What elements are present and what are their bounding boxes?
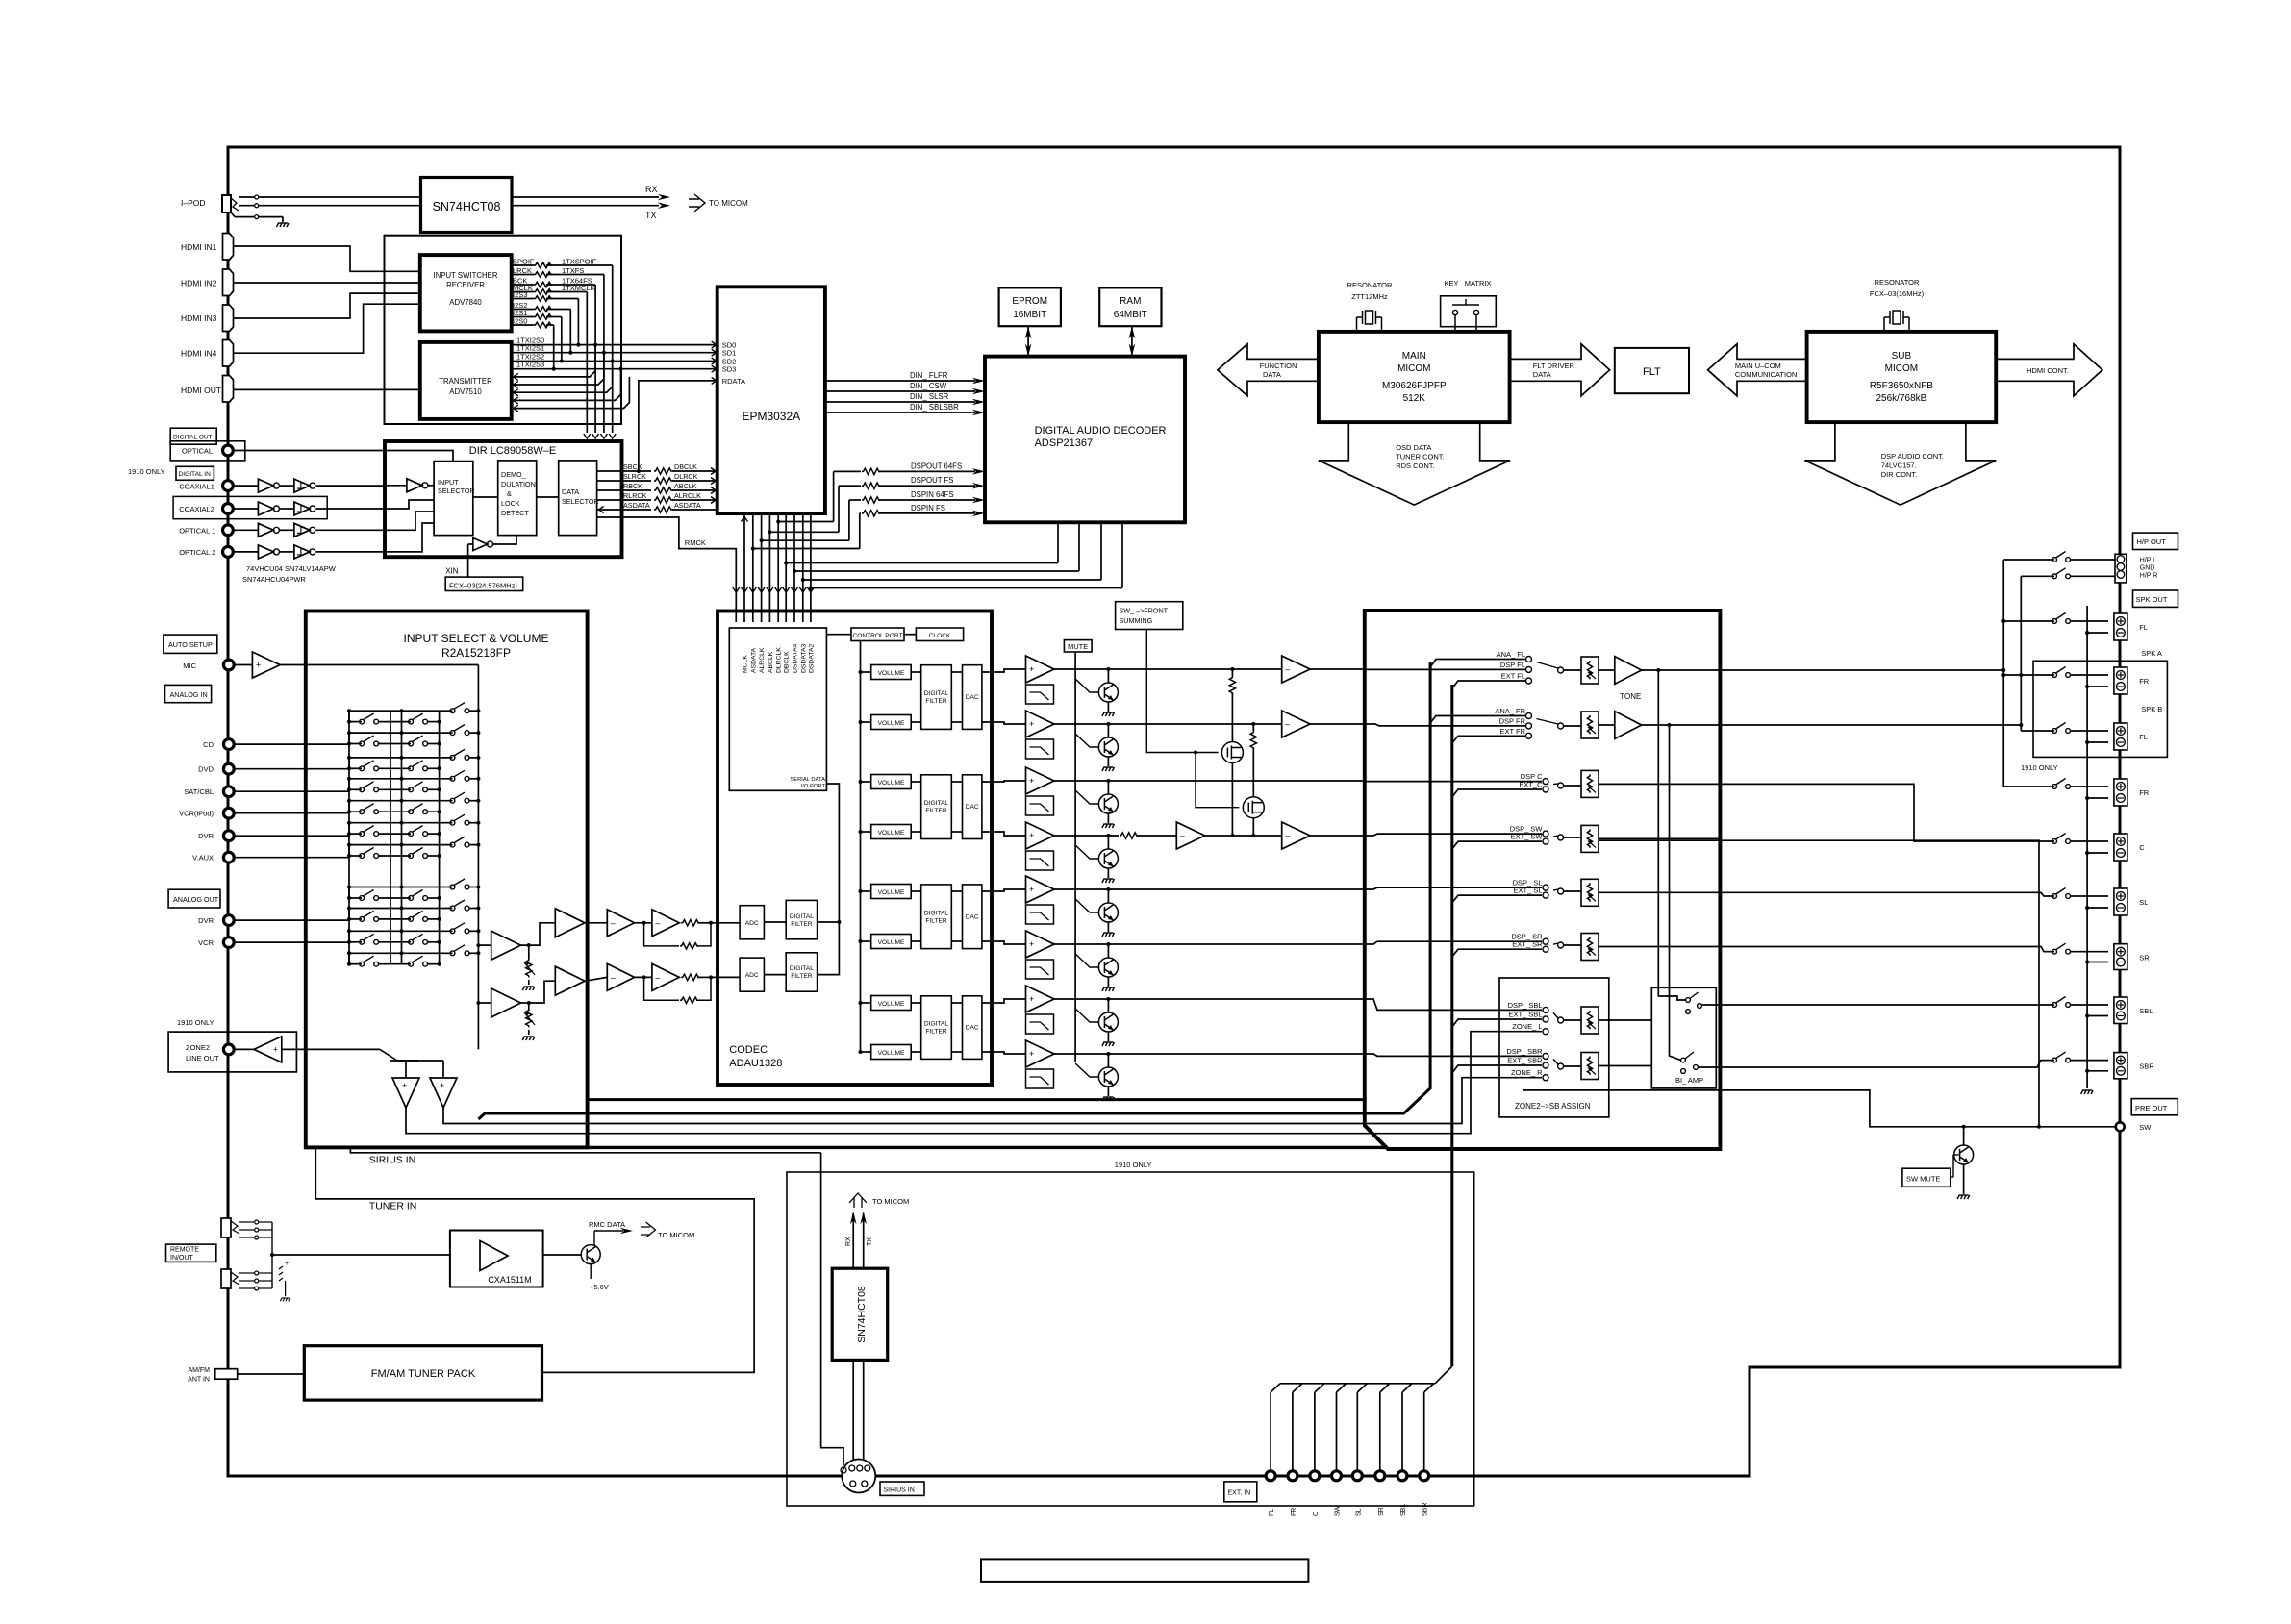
- op-amp DAC: [963, 885, 982, 949]
- wire SW line: [1599, 840, 2116, 1127]
- switch matrix col1: [360, 810, 365, 814]
- wire serial bus from DSP: [794, 570, 1079, 572]
- wire optical out to DIR: [233, 450, 385, 452]
- svg-text:GND: GND: [2140, 565, 2155, 572]
- svg-text:TONE: TONE: [1620, 692, 1641, 701]
- ground mute Q: [1102, 1097, 1115, 1101]
- svg-text:V.AUX: V.AUX: [192, 854, 214, 862]
- wire ipod pins: [255, 195, 259, 199]
- op-amp U MAIN MICOM M30626FJPFP: [1319, 332, 1510, 422]
- svg-text:DVD: DVD: [198, 765, 214, 774]
- op-amp tone FL: [1599, 669, 1615, 671]
- svg-text:DSPOUT 64FS: DSPOUT 64FS: [911, 462, 962, 470]
- wire SBR to column: [1699, 1061, 2055, 1067]
- svg-text:IN/OUT: IN/OUT: [170, 1255, 193, 1262]
- svg-text:H/P OUT: H/P OUT: [2137, 537, 2167, 546]
- wire ant to tuner: [238, 1373, 305, 1375]
- svg-text:TUNER CONT.: TUNER CONT.: [1396, 453, 1444, 462]
- potentiometer volume C: [1564, 785, 1582, 787]
- wire arrow OSD DATA down: [1319, 422, 1510, 505]
- svg-text:DULATION: DULATION: [501, 480, 536, 488]
- memory EPROM 16MBIT: [999, 287, 1061, 326]
- svg-text:DSPIN FS: DSPIN FS: [911, 504, 945, 512]
- wire HDMI OUT to transmitter: [234, 388, 420, 390]
- wire zone amp feeds: [405, 1061, 407, 1078]
- svg-text:+: +: [1029, 664, 1034, 674]
- wire SBL out: [1599, 1019, 1651, 1021]
- resistor feedback B: [644, 977, 679, 1000]
- svg-text:MCLK: MCLK: [743, 655, 749, 673]
- svg-text:DATA: DATA: [1533, 370, 1551, 379]
- svg-text:MIC: MIC: [183, 662, 196, 670]
- wire 1TXI2S0: [512, 344, 718, 346]
- svg-text:HDMI IN2: HDMI IN2: [181, 279, 217, 288]
- op-amp DIGITAL FILTER: [921, 665, 952, 730]
- wire FR row line: [1054, 723, 1282, 725]
- wire ASDATA up into EPM: [742, 517, 748, 522]
- wire EXT_SL jog: [1452, 895, 1542, 903]
- ground trim B: [522, 1037, 535, 1040]
- svg-text:OPTICAL 2: OPTICAL 2: [179, 548, 215, 557]
- wire matrix pair lower: [349, 918, 362, 920]
- svg-text:SW MUTE: SW MUTE: [1906, 1175, 1940, 1184]
- wire ipod sleeve to ground: [259, 216, 283, 218]
- svg-text:HDMI CONT.: HDMI CONT.: [2027, 366, 2069, 375]
- svg-text:H/P R: H/P R: [2140, 573, 2158, 580]
- wire serial bus from DSP: [803, 579, 1101, 581]
- svg-text:LINE OUT: LINE OUT: [186, 1054, 219, 1062]
- op-amp VOLUME: [871, 996, 912, 1011]
- svg-text:FL: FL: [2139, 623, 2148, 632]
- wire ZONE_R line: [443, 1078, 1542, 1124]
- svg-text:VOLUME: VOLUME: [878, 780, 905, 787]
- node SIRIUS IN label: [880, 1482, 924, 1495]
- node SW MUTE: [1902, 1168, 1951, 1187]
- connector EXT IN FR: [1288, 1471, 1297, 1481]
- wire matrix pair join: [348, 801, 350, 812]
- svg-text:SLRCK: SLRCK: [623, 472, 646, 481]
- svg-text:DIGITAL: DIGITAL: [924, 690, 948, 697]
- wire bottom RX: [852, 1213, 854, 1268]
- ground mute Q: [1102, 1042, 1115, 1046]
- potentiometer volume SW: [1564, 837, 1582, 838]
- wire bottom TX: [863, 1213, 865, 1268]
- svg-text:1TXMCLK: 1TXMCLK: [562, 284, 595, 292]
- switch matrix col3: [450, 842, 455, 847]
- wire SIRIUS IN feed: [350, 1147, 820, 1152]
- buffer 74VHCU04 coax2: [233, 508, 258, 510]
- node DIGITAL OUT label: [170, 428, 216, 444]
- svg-text:SPOIF: SPOIF: [513, 258, 535, 266]
- wire dsp serial drop: [1057, 522, 1059, 562]
- svg-text:SW: SW: [1335, 1505, 1342, 1516]
- wire I2S drop: [553, 325, 555, 369]
- op-amp ZONE2->SB ASSIGN box: [1499, 978, 1609, 1117]
- svg-text:TX: TX: [645, 211, 657, 220]
- svg-text:ZONE_ L: ZONE_ L: [1512, 1022, 1542, 1031]
- svg-text:–: –: [1285, 719, 1290, 729]
- svg-text:+: +: [285, 1261, 289, 1267]
- node TO MICOM bottom: [849, 1193, 867, 1208]
- op-amp minus B1: [607, 963, 634, 990]
- wire EXT_FL jog: [1452, 681, 1526, 688]
- svg-text:FILTER: FILTER: [791, 973, 812, 980]
- wire terminal minus C: [2087, 852, 2108, 854]
- op-amp U SN74HCT08 (top): [421, 178, 513, 233]
- svg-text:HDMI OUT: HDMI OUT: [181, 386, 221, 395]
- op-amp DIGITAL FILTER: [921, 885, 952, 949]
- op-amp SW inverting 1: [1176, 822, 1204, 849]
- connector I-POD jack: [222, 195, 231, 212]
- svg-text:SUB: SUB: [1892, 351, 1912, 362]
- wire EXT riser: [1450, 685, 1453, 1366]
- op-amp output buffer row 4: [1026, 822, 1055, 849]
- ground mute Q: [1102, 767, 1115, 771]
- wire remote to CXA1511M: [272, 1254, 450, 1256]
- svg-text:DSDATA2: DSDATA2: [808, 643, 815, 673]
- wire chassis outer border: [228, 147, 2120, 1476]
- op-amp VOLUME: [871, 1045, 912, 1060]
- wire FR switch feed: [2003, 674, 2054, 676]
- wire VCR(iPod) into matrix: [234, 812, 349, 814]
- svg-text:ADSP21367: ADSP21367: [1035, 437, 1094, 449]
- op-amp VOLUME: [871, 665, 912, 680]
- svg-text:256k/768kB: 256k/768kB: [1876, 393, 1926, 404]
- wire matrix pair join: [348, 758, 350, 768]
- switch matrix col1: [360, 962, 365, 966]
- svg-text:ASDATA: ASDATA: [623, 501, 650, 510]
- svg-text:AM/FM: AM/FM: [188, 1367, 210, 1374]
- svg-text:+: +: [1029, 719, 1034, 729]
- wire DSPOUT 64FS: [834, 470, 861, 472]
- wire opt1 to DIR: [316, 529, 385, 531]
- wire DSP_SL entry: [1365, 887, 1542, 889]
- wire FR2 switch feed: [2003, 786, 2054, 787]
- svg-text:SN74HCT08: SN74HCT08: [433, 200, 501, 213]
- wire HDMI IN4 to receiver: [234, 304, 420, 353]
- switch speaker FR: [2052, 785, 2057, 789]
- svg-text:ANT IN: ANT IN: [188, 1377, 210, 1384]
- op-amp FL inverting: [1282, 656, 1310, 683]
- wire 1910 only bottom box: [787, 1172, 1474, 1506]
- wire SR to column: [1720, 947, 2054, 952]
- wire coax1 to DIR: [316, 485, 385, 487]
- svg-text:+: +: [1029, 776, 1034, 786]
- wire matrix pair upper: [349, 908, 453, 910]
- svg-text:EXT FL: EXT FL: [1501, 672, 1525, 681]
- connector remote jack 2: [221, 1269, 231, 1288]
- wire HDMI IN1 to receiver: [234, 246, 420, 271]
- svg-text:RX: RX: [645, 185, 658, 194]
- svg-text:FILTER: FILTER: [925, 698, 946, 705]
- svg-text:I2S0: I2S0: [513, 317, 527, 326]
- svg-text:SN74HCT08: SN74HCT08: [856, 1286, 868, 1343]
- wire analog FLFR bus: [589, 1098, 1365, 1101]
- filter LPF symbol: [1026, 1069, 1054, 1088]
- switch matrix col1: [360, 896, 365, 901]
- wire RAM bus: [1131, 326, 1133, 356]
- svg-text:VOLUME: VOLUME: [878, 830, 905, 837]
- wire codec pin feed: [743, 513, 745, 622]
- wire matrix pair join: [348, 779, 350, 790]
- svg-text:ALRCLK: ALRCLK: [759, 647, 766, 673]
- wire DSP_SW entry: [1365, 834, 1542, 836]
- wire A to amp2: [529, 923, 556, 945]
- op-amp ADC 2: [740, 958, 764, 991]
- switch matrix col2: [409, 854, 414, 859]
- svg-text:DIN_ SBLSBR: DIN_ SBLSBR: [910, 403, 959, 412]
- svg-text:VOLUME: VOLUME: [878, 670, 905, 677]
- op-amp output buffer row 5: [1026, 876, 1055, 903]
- op-amp U output selector box: [1365, 611, 1721, 1149]
- svg-text:MUTE: MUTE: [1068, 642, 1088, 651]
- wire RMCK: [597, 517, 737, 622]
- transistor mute Q row 6: [1106, 942, 1110, 946]
- op-amp VOLUME: [871, 715, 912, 730]
- svg-text:DAC: DAC: [966, 694, 979, 701]
- op-amp output buffer row 1: [1026, 656, 1055, 683]
- svg-text:SW: SW: [2139, 1123, 2152, 1132]
- switch speaker SR: [2052, 949, 2057, 954]
- node title block rectangle: [981, 1559, 1308, 1582]
- switch matrix col1: [360, 719, 365, 724]
- wire matrix pair upper: [349, 710, 453, 712]
- potentiometer trim B: [521, 1002, 529, 1004]
- wire C to column: [1720, 784, 2054, 841]
- svg-text:DAC: DAC: [966, 1025, 979, 1032]
- wire matrix pair join: [348, 845, 350, 856]
- wire DSP_C entry: [1365, 781, 1542, 783]
- switch matrix col3: [450, 709, 455, 713]
- node TO MICOM (top): [689, 194, 705, 212]
- op-amp DIGITAL FILTER: [921, 996, 952, 1060]
- op-amp VOLUME: [871, 775, 912, 789]
- svg-text:HDMI IN3: HDMI IN3: [181, 313, 217, 323]
- switch speaker FL: [2052, 729, 2057, 734]
- wire V.AUX into matrix: [234, 857, 349, 859]
- svg-text:DIN_ FLFR: DIN_ FLFR: [910, 371, 948, 380]
- wire HDMI return line: [512, 353, 604, 385]
- wire DIR SLRCK to EPM DLRCK: [597, 480, 651, 482]
- svg-text:FLT: FLT: [1643, 366, 1661, 378]
- wire DSPIN FS: [860, 512, 861, 514]
- wire DAC out: [951, 1002, 962, 1004]
- node H/P OUT: [2133, 533, 2178, 549]
- op-amp U DIGITAL AUDIO DECODER ADSP21367: [985, 357, 1185, 523]
- svg-text:TUNER IN: TUNER IN: [369, 1201, 417, 1212]
- connector speaker terminal SBL: [2114, 997, 2127, 1024]
- wire C row line: [1054, 780, 1365, 782]
- svg-text:1TXSPOIF: 1TXSPOIF: [562, 258, 597, 266]
- svg-text:BI_ AMP: BI_ AMP: [1675, 1076, 1703, 1085]
- svg-text:KEY_ MATRIX: KEY_ MATRIX: [1444, 279, 1491, 287]
- svg-text:EXT. IN: EXT. IN: [1228, 1490, 1251, 1497]
- svg-text:SD3: SD3: [722, 365, 737, 374]
- wire B to amp2: [529, 981, 556, 1003]
- svg-text:R2A15218FP: R2A15218FP: [441, 646, 511, 660]
- wire TX out: [512, 205, 659, 207]
- svg-text:DIGITAL: DIGITAL: [790, 965, 814, 972]
- svg-text:DATA: DATA: [1263, 370, 1281, 379]
- svg-text:SELECTOR: SELECTOR: [438, 487, 475, 495]
- wire SW aux line: [1523, 1090, 2040, 1127]
- wire SL out: [1599, 891, 1720, 893]
- wire matrix bus v1: [348, 711, 350, 964]
- wire ANA_FR jog: [1430, 716, 1526, 724]
- svg-text:SBR: SBR: [1422, 1503, 1429, 1516]
- svg-text:VOLUME: VOLUME: [878, 1050, 905, 1057]
- op-amp buffer B1: [476, 1001, 480, 1005]
- wire matrix pair join: [348, 909, 350, 919]
- svg-text:ABCLK: ABCLK: [768, 651, 774, 673]
- svg-text:SPK OUT: SPK OUT: [2136, 595, 2168, 604]
- switch selector SW: [1558, 835, 1564, 840]
- wire DIR RBCK to EPM ABCLK: [597, 489, 651, 491]
- wire clock drop to DIR: [594, 285, 596, 433]
- wire I2S drop: [577, 299, 579, 345]
- svg-text:–: –: [655, 918, 660, 928]
- wire matrix pair upper: [349, 800, 453, 802]
- wire codec pin feed: [761, 513, 763, 622]
- svg-text:H/P L: H/P L: [2140, 558, 2156, 564]
- wire SL row line: [1054, 888, 1365, 890]
- wire volume to filter: [911, 1051, 921, 1053]
- node DIGITAL IN label: [176, 466, 214, 480]
- svg-text:DSP AUDIO CONT.: DSP AUDIO CONT.: [1881, 452, 1944, 461]
- svg-text:C: C: [2139, 843, 2145, 852]
- switch matrix col3: [450, 906, 455, 911]
- wire serial bus from DSP: [786, 562, 1058, 564]
- svg-text:CODEC: CODEC: [729, 1044, 768, 1056]
- svg-text:ADV7510: ADV7510: [449, 387, 482, 396]
- svg-text:ANA_ FL: ANA_ FL: [1497, 650, 1525, 659]
- wire HDMI return line: [512, 362, 613, 393]
- svg-text:SBL: SBL: [2139, 1007, 2153, 1015]
- transistor mute Q row 3: [1106, 779, 1110, 783]
- op-amp output buffer row 7: [1026, 986, 1055, 1012]
- switch matrix col1: [360, 741, 365, 746]
- ground remote bias: [279, 1266, 283, 1281]
- filter LPF symbol: [1026, 739, 1054, 759]
- switch matrix col2: [409, 741, 414, 746]
- wire EXT SBR riser: [1423, 1392, 1425, 1471]
- switch speaker FR: [2052, 673, 2057, 678]
- ground mute Q: [1102, 933, 1115, 937]
- switch matrix col1: [360, 939, 365, 944]
- op-amp DATA SELECTOR: [559, 461, 597, 536]
- wire coax2 into selector: [385, 500, 434, 509]
- svg-text:DIGITAL: DIGITAL: [790, 913, 814, 920]
- switch selector SBR: [1558, 1063, 1564, 1069]
- wire dsp serial drop: [1100, 522, 1102, 580]
- connector SW pre out: [2116, 1122, 2125, 1131]
- buffer SN74LV14APW coax2: [280, 508, 294, 510]
- wire ipod to SN74HCT08 TX: [259, 205, 421, 207]
- wire mute bus: [1074, 652, 1076, 1062]
- wire DAC out: [951, 1051, 962, 1053]
- svg-text:R5F3650xNFB: R5F3650xNFB: [1870, 381, 1933, 391]
- op-amp output buffer row 2: [1026, 711, 1055, 737]
- switch H/P R: [2052, 574, 2057, 579]
- wire volume to filter: [911, 781, 921, 783]
- op-amp minus A2: [652, 910, 679, 937]
- wire HDMI return line: [512, 345, 595, 377]
- wire EXT_SW jog: [1452, 841, 1542, 849]
- switch matrix col3: [450, 885, 455, 889]
- svg-text:DIGITAL: DIGITAL: [924, 800, 948, 807]
- connector speaker terminal SL: [2114, 888, 2127, 915]
- wire ADV7840 SPOIF: [512, 264, 534, 266]
- svg-text:EXT_ SBR: EXT_ SBR: [1507, 1057, 1543, 1065]
- wire FL amp to column: [1720, 669, 2003, 671]
- buffer XIN inverter: [473, 538, 488, 551]
- potentiometer volume SBL: [1564, 1019, 1582, 1021]
- connector ZONE2 LINE OUT: [168, 1032, 296, 1072]
- wire CD into matrix: [234, 743, 349, 745]
- svg-text:SL: SL: [2139, 898, 2148, 907]
- op-amp ADC digital filter 1: [786, 900, 817, 938]
- wire matrix bus v3: [401, 711, 403, 964]
- wire serial to control port: [826, 634, 851, 636]
- svg-text:+: +: [256, 661, 261, 670]
- svg-text:INPUT SELECT & VOLUME: INPUT SELECT & VOLUME: [404, 632, 549, 645]
- wire matrix pair lower: [349, 743, 362, 745]
- svg-text:+: +: [273, 1045, 278, 1055]
- wire opt2 into selector: [385, 523, 434, 552]
- svg-text:ASDATA: ASDATA: [750, 647, 757, 673]
- buffer 74VHCU04 coax1: [233, 485, 258, 487]
- wire speaker ground bus: [2086, 606, 2088, 1088]
- wire adc1 input: [711, 922, 740, 924]
- wire dsp serial drop: [1078, 522, 1080, 571]
- transistor mute Q row 7: [1106, 997, 1110, 1001]
- wire terminal minus FL: [2087, 741, 2108, 743]
- wire codec control bus: [860, 641, 862, 1053]
- svg-text:SBR: SBR: [2139, 1062, 2154, 1071]
- wire I2S drop: [561, 317, 563, 362]
- svg-text:CD: CD: [203, 740, 214, 749]
- svg-text:DIN_ SLSR: DIN_ SLSR: [910, 392, 949, 401]
- wire DIR ASDATA to EPM ASDATA: [597, 509, 651, 511]
- transistor mute Q row 8: [1106, 1052, 1110, 1056]
- wire border to sirius: [875, 1475, 1266, 1478]
- svg-text:RAM: RAM: [1120, 296, 1141, 307]
- connector speaker terminal FR: [2114, 779, 2127, 806]
- svg-text:OPTICAL 1: OPTICAL 1: [179, 526, 215, 535]
- wire matrix pair lower: [349, 855, 362, 857]
- svg-text:HDMI IN1: HDMI IN1: [181, 242, 217, 252]
- svg-text:DSP FL: DSP FL: [1500, 661, 1525, 669]
- svg-text:+: +: [440, 1081, 444, 1090]
- wire HDMI return line: [512, 369, 621, 401]
- node ANALOG IN: [165, 685, 212, 702]
- wire dsp serial drop: [1121, 522, 1123, 587]
- wire RDATA feed: [639, 381, 718, 471]
- wire matrix pair upper: [349, 887, 453, 888]
- svg-text:MICOM: MICOM: [1885, 363, 1918, 374]
- wire volume to filter: [911, 671, 921, 673]
- wire serial io to adc filters: [818, 784, 840, 975]
- wire DSP_SBR entry: [1365, 1054, 1542, 1056]
- svg-text:SN74AHCU04PWR: SN74AHCU04PWR: [242, 575, 306, 584]
- node REMOTE IN/OUT: [166, 1244, 216, 1262]
- node SPK OUT: [2133, 590, 2178, 607]
- wire mic into matrix: [280, 664, 478, 666]
- wire DIR RLRCK to EPM ALRCLK: [597, 499, 651, 501]
- wire DVR out: [234, 919, 349, 921]
- svg-text:RX: RX: [845, 1237, 852, 1246]
- connector EXT IN C: [1310, 1471, 1320, 1481]
